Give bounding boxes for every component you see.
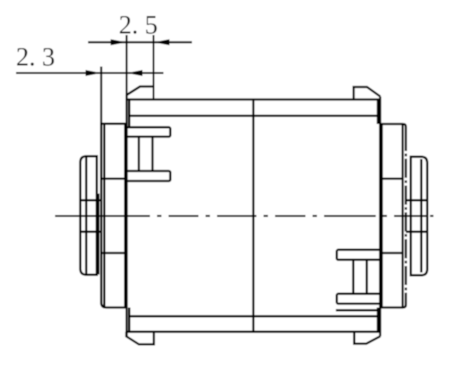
svg-text:2. 5: 2. 5 [119,10,158,39]
svg-text:2. 3: 2. 3 [16,43,55,72]
